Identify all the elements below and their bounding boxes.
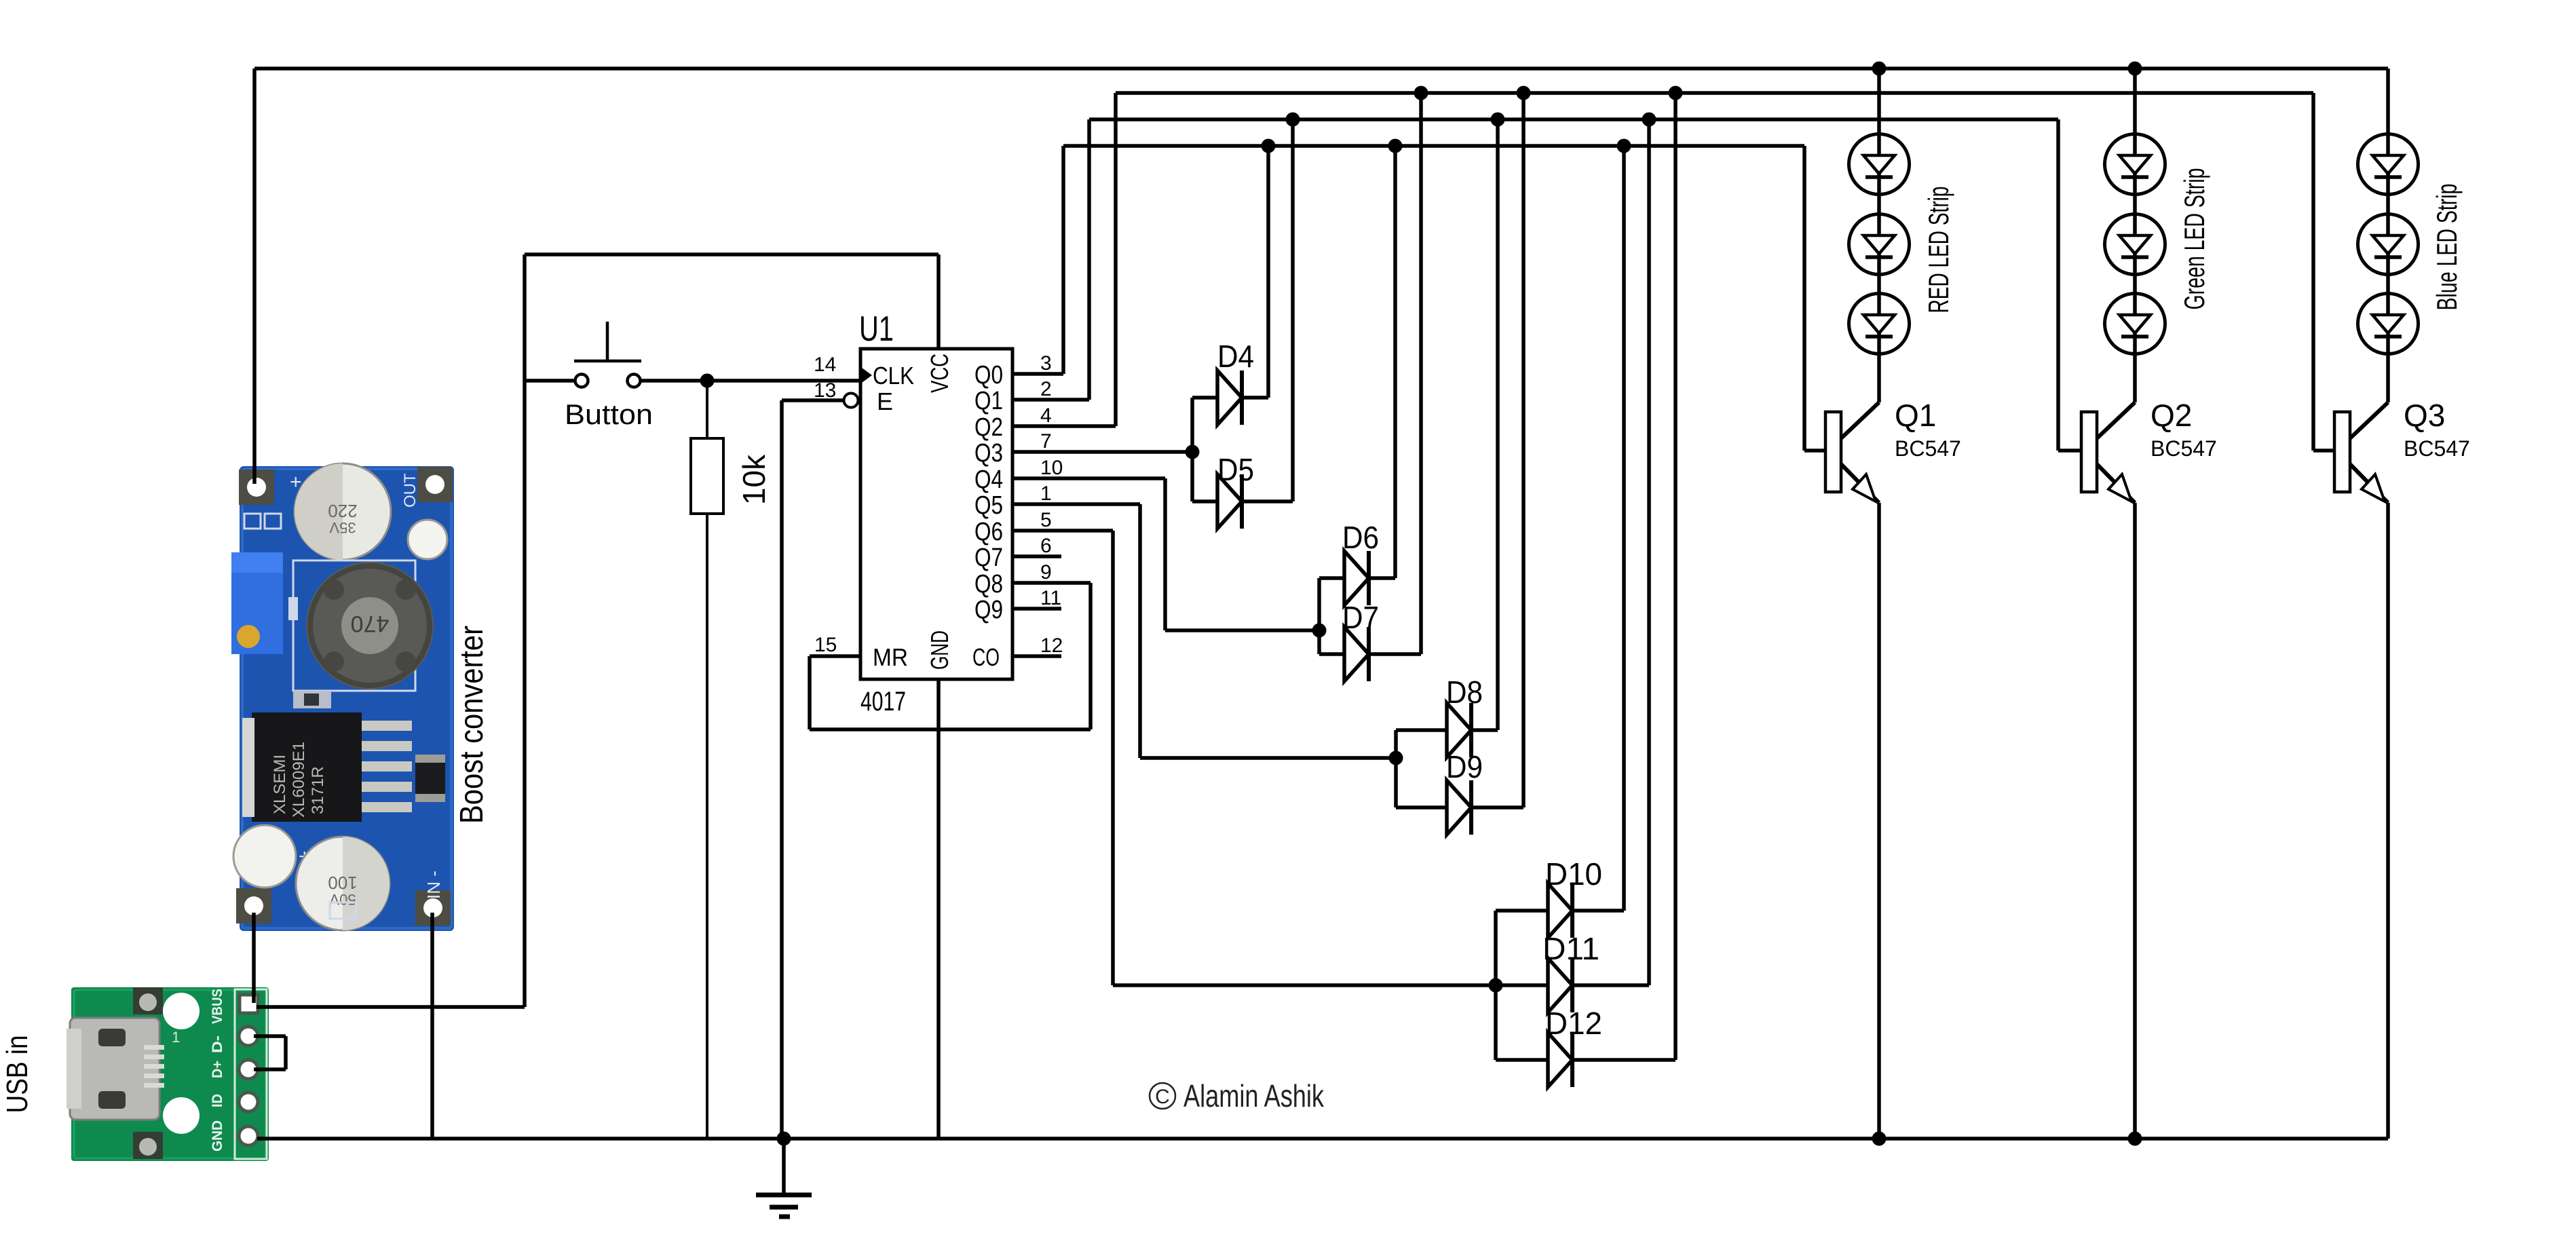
svg-text:3: 3 <box>1040 352 1052 375</box>
svg-text:Green LED Strip: Green LED Strip <box>2178 168 2210 310</box>
svg-text:11: 11 <box>1040 587 1061 609</box>
svg-text:+: + <box>290 471 302 493</box>
svg-text:MR: MR <box>873 643 908 671</box>
svg-text:E: E <box>877 387 893 415</box>
svg-text:D4: D4 <box>1217 339 1254 374</box>
svg-text:D12: D12 <box>1545 1006 1602 1041</box>
svg-text:Q1: Q1 <box>1895 398 1936 433</box>
svg-text:100: 100 <box>328 873 357 893</box>
svg-text:6: 6 <box>1040 535 1052 557</box>
svg-text:4: 4 <box>1040 404 1052 427</box>
svg-text:4017: 4017 <box>860 687 906 717</box>
svg-text:2: 2 <box>1040 378 1052 400</box>
svg-text:15: 15 <box>814 634 837 656</box>
svg-text:D-: D- <box>210 1035 225 1053</box>
svg-text:U1: U1 <box>859 309 894 349</box>
svg-text:Q1: Q1 <box>974 387 1003 415</box>
svg-text:VCC: VCC <box>926 354 953 393</box>
svg-text:35V: 35V <box>329 519 356 536</box>
svg-text:BC547: BC547 <box>2404 436 2470 461</box>
svg-text:9: 9 <box>1040 561 1052 584</box>
svg-text:IN -: IN - <box>423 871 444 899</box>
svg-text:Button: Button <box>565 398 653 430</box>
svg-text:1: 1 <box>1040 482 1052 505</box>
svg-text:Q6: Q6 <box>974 518 1003 546</box>
svg-text:Q9: Q9 <box>974 596 1003 624</box>
svg-text:D9: D9 <box>1446 749 1483 784</box>
svg-text:Q2: Q2 <box>2151 398 2192 433</box>
svg-text:USB in: USB in <box>1 1035 34 1114</box>
svg-text:Q4: Q4 <box>974 465 1003 494</box>
svg-text:Q5: Q5 <box>974 491 1003 520</box>
svg-text:Q3: Q3 <box>2404 398 2445 433</box>
svg-text:Q8: Q8 <box>974 570 1003 598</box>
svg-text:Boost converter: Boost converter <box>454 626 490 824</box>
svg-text:Q7: Q7 <box>974 544 1003 572</box>
svg-text:14: 14 <box>814 354 836 376</box>
svg-text:D8: D8 <box>1446 674 1483 710</box>
svg-text:470: 470 <box>351 611 390 636</box>
svg-text:Blue LED Strip: Blue LED Strip <box>2431 184 2463 311</box>
svg-text:D7: D7 <box>1342 600 1379 635</box>
svg-text:12: 12 <box>1040 634 1063 657</box>
svg-text:CO: CO <box>972 643 1000 671</box>
svg-text:D6: D6 <box>1342 520 1379 555</box>
svg-text:Q2: Q2 <box>974 413 1003 442</box>
svg-text:GND: GND <box>926 630 953 670</box>
svg-text:OUT: OUT <box>401 473 419 508</box>
svg-text:C: C <box>1155 1086 1170 1108</box>
svg-text:ID: ID <box>210 1094 225 1107</box>
svg-text:10: 10 <box>1040 457 1063 479</box>
svg-text:CLK: CLK <box>873 362 914 389</box>
svg-text:BC547: BC547 <box>1895 436 1961 461</box>
svg-text:XL6009E1: XL6009E1 <box>290 742 308 818</box>
svg-text:D11: D11 <box>1542 931 1599 966</box>
svg-text:Q3: Q3 <box>974 439 1003 468</box>
svg-text:3171R: 3171R <box>309 766 327 814</box>
svg-text:BC547: BC547 <box>2151 436 2217 461</box>
svg-text:RED LED Strip: RED LED Strip <box>1922 187 1954 313</box>
svg-text:Alamin Ashik: Alamin Ashik <box>1183 1078 1325 1114</box>
svg-text:VBUS: VBUS <box>210 989 225 1024</box>
svg-text:220: 220 <box>328 501 357 521</box>
svg-text:D10: D10 <box>1545 856 1602 892</box>
svg-text:50V: 50V <box>329 891 356 908</box>
svg-text:D5: D5 <box>1217 452 1254 487</box>
svg-text:7: 7 <box>1040 430 1052 453</box>
svg-text:5: 5 <box>1040 509 1052 531</box>
svg-text:1: 1 <box>172 1029 180 1046</box>
svg-text:10k: 10k <box>736 454 772 505</box>
svg-text:Q0: Q0 <box>974 361 1003 389</box>
svg-text:13: 13 <box>814 379 836 402</box>
svg-text:XLSEMI: XLSEMI <box>271 755 289 814</box>
svg-text:GND: GND <box>210 1120 225 1152</box>
svg-text:D+: D+ <box>210 1061 225 1078</box>
